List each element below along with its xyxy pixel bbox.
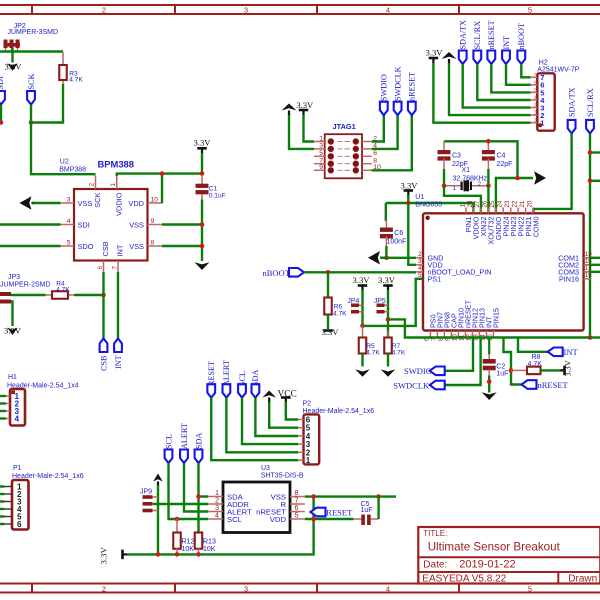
svg-text:1: 1 <box>110 183 117 187</box>
svg-text:4: 4 <box>67 218 71 225</box>
net label SCL (U3) <box>165 450 173 464</box>
wire SCL/RX long vertical <box>589 133 591 337</box>
svg-text:4: 4 <box>386 5 390 14</box>
svg-text:P1: P1 <box>13 465 22 472</box>
junction rail R13 <box>196 552 201 557</box>
wire JTAG pin10 to nRESET <box>372 115 412 170</box>
junction left edge <box>0 120 3 125</box>
svg-text:CSB: CSB <box>99 355 108 371</box>
wire JP5 line <box>387 290 389 338</box>
wire 3.3V to VDD pin <box>408 203 416 265</box>
svg-text:R8: R8 <box>532 354 541 361</box>
capacitor C6 <box>385 203 387 221</box>
wire SDA to P2 <box>255 398 298 436</box>
svg-text:6: 6 <box>97 266 104 270</box>
wire VDD pin5 row <box>305 518 354 520</box>
capacitor C1 <box>201 175 203 184</box>
wire SDA/TX to U1 COM0 <box>533 133 571 213</box>
svg-text:C6: C6 <box>394 230 403 237</box>
junction rail R12 <box>175 552 180 557</box>
wire ALERT to P2 <box>226 398 298 453</box>
svg-text:JUMPER-3SMD: JUMPER-3SMD <box>8 29 59 36</box>
wire bottom row to edge <box>590 336 600 338</box>
resistor R8 <box>511 369 527 371</box>
svg-text:H2: H2 <box>539 60 548 67</box>
wire U2 pin9 row <box>162 223 202 225</box>
net label nRESET <box>408 102 416 116</box>
wire SDA to pin1 <box>199 495 209 497</box>
svg-text:23: 23 <box>504 200 511 207</box>
svg-text:1: 1 <box>319 135 323 142</box>
wire SDI from edge to U2 pin 4 <box>0 223 61 225</box>
svg-text:BPM388: BPM388 <box>98 159 134 170</box>
svg-text:BMP388: BMP388 <box>59 166 86 173</box>
svg-text:5: 5 <box>295 511 299 520</box>
svg-text:SWDCLK: SWDCLK <box>393 380 430 390</box>
net label SWDIO <box>380 102 388 116</box>
svg-text:3: 3 <box>418 258 422 265</box>
svg-text:2: 2 <box>102 584 106 593</box>
svg-text:U3: U3 <box>261 465 270 472</box>
junction JP5 node <box>386 317 391 322</box>
svg-text:C1: C1 <box>209 185 218 192</box>
wire INT to H2 <box>506 64 531 85</box>
net label SDA (U3) <box>195 450 203 464</box>
capacitor C2 <box>488 338 490 355</box>
junction bottom row right <box>588 335 593 340</box>
svg-text:3.3V: 3.3V <box>426 48 444 58</box>
junction pin8 row right <box>376 494 381 499</box>
ground port arrow at JP9 line <box>153 474 163 482</box>
svg-text:Ultimate Sensor Breakout: Ultimate Sensor Breakout <box>428 541 561 554</box>
svg-text:SWDIO: SWDIO <box>380 74 389 101</box>
svg-text:1: 1 <box>306 456 311 465</box>
junction R5 node <box>360 324 365 329</box>
junction C6 gnd <box>384 255 389 260</box>
wire R8 to 3.3V <box>540 369 562 371</box>
wire INT net <box>117 272 119 339</box>
junction crystal right <box>486 183 491 188</box>
power flag 3.3V at P2 pin6 <box>281 396 291 399</box>
wire U2 pin8 row <box>162 245 202 247</box>
svg-text:RESET: RESET <box>207 361 216 386</box>
net label INT (top) <box>502 51 510 65</box>
wire SWDIO drop <box>444 338 473 371</box>
junction pin8 row left <box>311 494 316 499</box>
wire INT drop <box>518 338 548 352</box>
power flag 3.3V at R8 (rotated) <box>563 366 566 376</box>
wire JP3 to R4 <box>11 294 46 296</box>
svg-text:4: 4 <box>534 96 537 102</box>
wire VSS pin8 row <box>305 495 396 497</box>
svg-text:INT: INT <box>502 36 511 50</box>
svg-text:5: 5 <box>528 5 532 14</box>
svg-text:20: 20 <box>526 200 533 207</box>
svg-text:BNO055: BNO055 <box>415 202 442 209</box>
wire SCK net to U2 <box>31 105 96 175</box>
svg-text:nRESET: nRESET <box>538 380 569 390</box>
ground arrow below R7 <box>381 369 396 377</box>
svg-text:4.7K: 4.7K <box>366 350 380 357</box>
wire branch right lower <box>590 180 600 182</box>
svg-text:4.7K: 4.7K <box>392 350 406 357</box>
H2 pin1 marker <box>538 123 542 127</box>
svg-text:5: 5 <box>528 584 532 593</box>
svg-text:5: 5 <box>534 88 537 94</box>
svg-text:VSS: VSS <box>78 199 93 208</box>
ground arrow below C2 <box>482 392 497 400</box>
junction SDA pin1 <box>196 494 201 499</box>
wire ADDR to JP9 <box>153 503 208 505</box>
wire SDA/TX to H2 <box>463 64 531 108</box>
svg-text:VDD: VDD <box>128 199 144 208</box>
wire branch right upper <box>590 151 600 153</box>
net label nRESET (top) <box>487 51 495 65</box>
junction branch upper <box>588 150 593 155</box>
wire gnd row to GNDIO <box>496 178 533 213</box>
svg-text:R13: R13 <box>203 539 216 546</box>
svg-text:3: 3 <box>534 103 537 109</box>
junction C2 gnd <box>487 379 492 384</box>
junction crystal left <box>442 183 447 188</box>
ground port arrow at H2 <box>442 52 457 59</box>
net label SWDCLK (bottom) <box>430 381 445 390</box>
wire SCL to P2 <box>242 398 298 444</box>
svg-text:24: 24 <box>497 200 504 207</box>
svg-text:2: 2 <box>89 183 96 187</box>
svg-text:JUMPER-2SMD: JUMPER-2SMD <box>0 282 51 289</box>
wire R6 to 3.3V <box>327 314 329 329</box>
net label SDA (P2) <box>252 384 260 398</box>
svg-text:26: 26 <box>482 200 489 207</box>
svg-text:6: 6 <box>534 80 537 86</box>
svg-text:PS1: PS1 <box>428 274 442 283</box>
wires P1 pins <box>0 485 5 487</box>
svg-text:4: 4 <box>418 265 422 272</box>
svg-text:6: 6 <box>373 150 377 157</box>
wire crystal left to XIN32 <box>444 186 481 213</box>
junction rail JP9 <box>156 552 161 557</box>
svg-text:nBOOT: nBOOT <box>517 23 526 49</box>
svg-text:10: 10 <box>151 196 159 203</box>
wire C2 to gnd <box>488 376 490 393</box>
ground port arrow at U1 GND <box>368 251 380 264</box>
wire R5 to gnd <box>361 353 363 367</box>
svg-text:P2: P2 <box>303 401 312 408</box>
junction VDDIO node <box>160 171 165 176</box>
svg-text:SCL/RX: SCL/RX <box>473 21 482 50</box>
svg-text:7: 7 <box>534 73 537 79</box>
svg-text:3.3V: 3.3V <box>564 360 573 376</box>
ground port arrow right <box>534 171 546 185</box>
wire JP2 row <box>0 50 63 52</box>
wire JP3 to 3.3V <box>11 302 13 327</box>
svg-text:5: 5 <box>319 150 323 157</box>
wire 3.3V rail to VDDIO <box>408 195 473 213</box>
junction C4 top <box>486 139 491 144</box>
wire left edge label <box>0 105 2 123</box>
svg-text:1uF: 1uF <box>361 507 373 514</box>
wire GND row to U1 pin2 <box>380 257 416 259</box>
svg-text:INT: INT <box>114 355 123 369</box>
svg-text:2: 2 <box>418 251 422 258</box>
svg-text:Drawn B: Drawn B <box>568 573 600 584</box>
wire JTAG pin2 to SWDIO <box>372 115 384 141</box>
ground arrow below R5 <box>355 369 370 377</box>
wire 3.3V to P2 pin6 <box>286 402 299 420</box>
svg-text:6: 6 <box>17 520 22 529</box>
svg-text:8: 8 <box>151 239 155 246</box>
junction 3.3V rail <box>406 201 411 206</box>
wire SCL net (U3) <box>169 463 209 519</box>
wire SCL/RX to H2 <box>477 64 530 100</box>
net label ALERT (U3) <box>180 450 188 464</box>
wire C3 to crystal node <box>443 169 445 186</box>
resistor R5 <box>362 326 364 338</box>
wire R7 to gnd <box>387 353 389 367</box>
svg-text:25: 25 <box>489 200 496 207</box>
svg-text:3.3V: 3.3V <box>353 275 371 285</box>
svg-text:9: 9 <box>151 218 155 225</box>
wire CSB net <box>102 272 104 339</box>
svg-text:INT: INT <box>564 347 579 357</box>
wire cap top rail <box>444 141 518 178</box>
net label SCL (P2) <box>238 384 246 398</box>
svg-text:2019-01-22: 2019-01-22 <box>459 559 515 571</box>
svg-text:3.3V: 3.3V <box>194 138 212 148</box>
power port VCC arrow <box>262 391 276 398</box>
wire crystal right to XOUT32 <box>487 186 489 213</box>
resistor R12 <box>176 519 178 533</box>
svg-text:VSS: VSS <box>129 242 144 251</box>
wire C6 to GND row <box>385 246 387 258</box>
svg-text:0.1uF: 0.1uF <box>209 192 226 199</box>
wire SDO from edge to U2 pin 5 <box>0 245 61 247</box>
resistor R4 <box>46 294 53 296</box>
net label RESET (P2) <box>207 384 215 398</box>
svg-text:3.3V: 3.3V <box>401 180 419 190</box>
net label RESET (U3) <box>311 508 326 517</box>
net label SDA/TX (top) <box>459 51 467 65</box>
svg-text:SCL: SCL <box>164 434 173 449</box>
svg-text:R6: R6 <box>334 304 343 311</box>
wire 3.3V rail bottom <box>127 497 314 555</box>
net label INT (U2) <box>114 339 122 353</box>
svg-text:4.7K: 4.7K <box>333 311 347 318</box>
svg-text:U2: U2 <box>60 159 69 166</box>
svg-text:Date:: Date: <box>423 560 447 571</box>
svg-text:4: 4 <box>15 415 20 424</box>
wire RESET to P2 <box>211 398 298 461</box>
svg-text:5: 5 <box>67 239 71 246</box>
net label SCL/RX (top) <box>473 51 481 65</box>
svg-text:SWDIO: SWDIO <box>404 366 432 376</box>
svg-text:9: 9 <box>319 164 323 171</box>
svg-text:SCK: SCK <box>27 73 36 89</box>
svg-text:4.7K: 4.7K <box>528 361 543 368</box>
svg-text:PIN15: PIN15 <box>492 308 501 328</box>
capacitor C3 <box>438 150 451 154</box>
svg-text:4: 4 <box>386 584 390 593</box>
wire R5 node to PS1 <box>363 279 424 326</box>
junction R12 top <box>175 517 180 522</box>
svg-text:TITLE:: TITLE: <box>423 529 447 538</box>
wire nRESET to H2 <box>491 64 530 92</box>
svg-text:SCL: SCL <box>238 371 247 386</box>
resistor R6 <box>327 272 329 298</box>
junction CSB node <box>101 293 106 298</box>
wire C5 to pin8 row <box>377 497 379 519</box>
net label ALERT (P2) <box>223 384 231 398</box>
svg-text:VSS: VSS <box>129 220 144 229</box>
sheet border bottom <box>0 583 600 585</box>
junction pin8 <box>200 244 205 249</box>
svg-text:1uF: 1uF <box>496 370 508 377</box>
net label INT (bottom) <box>548 348 563 357</box>
svg-text:21: 21 <box>519 200 526 207</box>
wire JP4 line <box>361 290 363 326</box>
wire C1 down to ground <box>201 200 203 262</box>
svg-text:3: 3 <box>67 196 71 203</box>
svg-text:SDA: SDA <box>251 370 260 386</box>
svg-text:28: 28 <box>467 200 474 207</box>
wires COM1-COM3 to edge <box>589 257 600 259</box>
wire R13 to rail <box>198 548 200 554</box>
svg-text:JP9: JP9 <box>140 489 152 496</box>
wire nBOOT to U1 pin4 <box>304 271 416 273</box>
wire nBOOT to H2 <box>521 64 530 77</box>
svg-text:SCK: SCK <box>93 192 102 207</box>
svg-text:4: 4 <box>215 511 219 520</box>
wire VCC to P2 pin5 <box>269 402 298 428</box>
wire nRESET drop <box>504 338 522 385</box>
svg-text:3.3V: 3.3V <box>378 275 396 285</box>
svg-text:SDA/TX: SDA/TX <box>459 20 468 50</box>
svg-text:U1: U1 <box>415 194 424 201</box>
svg-text:ALERT: ALERT <box>222 360 231 386</box>
svg-text:4.7K: 4.7K <box>56 286 70 293</box>
svg-text:22: 22 <box>511 200 518 207</box>
wire 3.3V to JTAG pin1 <box>304 115 315 142</box>
svg-text:SDO: SDO <box>78 242 94 251</box>
ground port arrow at U2 pin 3 <box>20 196 32 210</box>
wire R3 to SCK node <box>31 84 63 123</box>
svg-text:INT: INT <box>116 244 125 256</box>
svg-text:VDD: VDD <box>270 515 287 524</box>
junction branch lower <box>588 179 593 184</box>
svg-text:SWDCLK: SWDCLK <box>393 66 402 101</box>
net label SDA/TX (second) <box>568 120 576 133</box>
junction R8 left <box>509 368 514 373</box>
svg-text:2: 2 <box>102 5 106 14</box>
wire JTAG pin4 to SWDCLK <box>372 115 398 149</box>
resistor R13 <box>198 532 200 534</box>
net label SWDIO (bottom) <box>430 367 445 376</box>
svg-text:16: 16 <box>585 272 592 279</box>
svg-text:C4: C4 <box>497 152 506 159</box>
svg-text:RESET: RESET <box>326 507 353 517</box>
svg-text:ALERT: ALERT <box>180 423 189 449</box>
capacitor C4 <box>487 141 489 150</box>
junction R6 top <box>326 270 331 275</box>
svg-text:PIN16: PIN16 <box>559 274 579 283</box>
svg-text:1: 1 <box>534 118 537 124</box>
svg-text:CSB: CSB <box>101 241 110 256</box>
svg-text:1: 1 <box>459 204 466 208</box>
svg-text:3: 3 <box>244 584 248 593</box>
wires H1 pins <box>0 395 6 397</box>
wire gnd to H2 pin2 <box>449 63 531 115</box>
svg-text:SDI: SDI <box>0 76 5 89</box>
wire 3.3V to H2 pin1 <box>433 63 530 123</box>
junction gnd row <box>515 176 520 181</box>
svg-text:32.768KHz: 32.768KHz <box>453 175 488 182</box>
svg-text:3: 3 <box>319 143 323 150</box>
wire JP5 to bottom row <box>388 319 590 337</box>
junction VDD node <box>311 517 316 522</box>
svg-text:SDI: SDI <box>78 220 90 229</box>
net label SCL/RX (second) <box>586 120 594 133</box>
wire JP9 vertical <box>157 485 159 554</box>
svg-text:COM0: COM0 <box>531 217 540 238</box>
svg-text:27: 27 <box>474 200 481 207</box>
wire gnd to JTAG pin3 <box>289 115 314 149</box>
svg-text:10K: 10K <box>182 546 195 553</box>
svg-text:nRESET: nRESET <box>487 20 496 49</box>
svg-text:X1: X1 <box>462 167 471 174</box>
svg-text:C3: C3 <box>452 152 461 159</box>
svg-text:3: 3 <box>244 5 248 14</box>
resistor R7 <box>387 331 389 338</box>
svg-text:JP3: JP3 <box>8 274 20 281</box>
svg-text:1: 1 <box>453 185 457 192</box>
svg-text:H1: H1 <box>8 374 17 381</box>
svg-text:SDA: SDA <box>194 433 203 449</box>
ground port arrow at JTAG <box>282 104 297 111</box>
svg-text:nBOOT: nBOOT <box>263 268 291 278</box>
junction SCK node <box>29 120 34 125</box>
junction pin9 <box>200 222 205 227</box>
svg-text:100nF: 100nF <box>387 238 407 245</box>
svg-text:SCL/RX: SCL/RX <box>586 88 595 117</box>
wire C4 to crystal node <box>487 169 489 186</box>
svg-text:7: 7 <box>112 266 119 270</box>
title block <box>418 527 600 584</box>
resistor R3 <box>62 52 64 66</box>
wire R4 to CSB node <box>74 294 104 296</box>
svg-text:2: 2 <box>534 111 537 117</box>
wire SWDCLK drop <box>444 338 481 386</box>
svg-text:VDDIO: VDDIO <box>114 192 123 216</box>
svg-text:22pF: 22pF <box>497 161 513 168</box>
wire 3.3V to VDDIO and C1 <box>201 153 203 174</box>
svg-text:nRESET: nRESET <box>408 72 417 101</box>
ground arrow below C1 <box>195 262 210 270</box>
svg-text:SHT35-DIS-B: SHT35-DIS-B <box>261 473 304 480</box>
svg-text:JTAG1: JTAG1 <box>333 122 356 131</box>
net label CSB <box>100 339 108 353</box>
svg-text:SDA/TX: SDA/TX <box>567 87 576 117</box>
net label SWDCLK <box>394 102 402 116</box>
net label nBOOT (top) <box>517 51 525 65</box>
svg-text:3.3V: 3.3V <box>99 547 109 565</box>
wire ALERT net (U3) <box>184 463 208 512</box>
wire U2 pin3 VSS <box>33 202 61 204</box>
wire SDA net (U3) <box>197 463 199 533</box>
net label nRESET (bottom) <box>522 380 537 389</box>
wire R12 to rail <box>176 548 178 554</box>
svg-text:10K: 10K <box>203 546 216 553</box>
